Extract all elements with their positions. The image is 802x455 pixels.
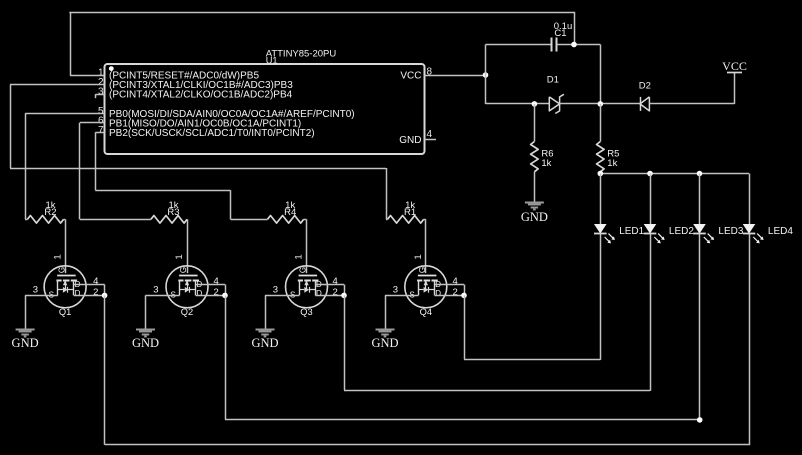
node junction Q3 drain [341, 293, 347, 299]
wire pin7 vertical down [95, 132, 97, 190]
LED LED4 triangle [743, 224, 756, 234]
Q4 channel dashes [417, 280, 422, 282]
resistor R2 [27, 216, 63, 224]
wire R5 to LED bus [600, 172, 602, 174]
svg-text:R4: R4 [284, 207, 296, 218]
wire bus to LED3 [699, 174, 701, 225]
wire pin2 net drop to R1 [386, 168, 388, 219]
svg-text:C1: C1 [554, 28, 566, 39]
diode D2 triangle [640, 97, 649, 111]
svg-text:1: 1 [413, 254, 424, 259]
Q4 body diode [419, 289, 424, 291]
Q1 channel dashes [56, 280, 61, 282]
node junction pin8/VCC branch [483, 72, 489, 78]
svg-text:LED4: LED4 [768, 226, 793, 237]
wire Q1 source to ground [25, 295, 27, 329]
wire VCC symbol drop [734, 72, 736, 104]
wire Q4 source to ground [385, 295, 387, 329]
LED4 cathode bar [743, 233, 756, 235]
Q3 substrate arrow [306, 282, 308, 290]
LED LED3 triangle [693, 224, 706, 234]
transistor Q3 body circle [286, 266, 328, 308]
svg-text:3: 3 [33, 285, 38, 296]
node junction bus/LED1 [598, 171, 604, 177]
wire Q3 drain down [344, 295, 346, 390]
Q3 gate plate [299, 275, 318, 277]
svg-text:VCC: VCC [400, 71, 421, 82]
wire U1 pin3 stub with jog (no-connect) [96, 94, 105, 96]
svg-text:VCC: VCC [722, 59, 747, 73]
svg-text:GND: GND [132, 336, 159, 350]
Q4 source internal lead [418, 280, 420, 295]
svg-text:LED2: LED2 [669, 226, 694, 237]
wire Q1 drain pin4 [74, 284, 105, 286]
resistor R5 [597, 142, 605, 172]
svg-text:1: 1 [174, 254, 185, 259]
wire Q2 to LED3 [225, 419, 700, 421]
wire U1 pin8 to VCC node [425, 75, 486, 77]
node junction Q1 drain [102, 293, 108, 299]
svg-text:1k: 1k [607, 158, 617, 169]
svg-text:3: 3 [98, 87, 104, 98]
diode D2 cathode bar [640, 97, 642, 111]
Q4 gate plate [418, 275, 437, 277]
node junction LED3 corner [697, 417, 703, 423]
wire U1 pin7 left [95, 132, 104, 134]
wire bus to LED2 [650, 174, 652, 225]
wire LED4 cathode down [749, 234, 751, 445]
svg-text:G: G [418, 267, 427, 273]
svg-text:R1: R1 [404, 207, 416, 218]
Q2 source internal lead [179, 280, 181, 295]
wire pin7 to R4 [231, 219, 268, 221]
Q2 substrate arrow [187, 282, 189, 290]
resistor R6 [531, 142, 539, 172]
svg-text:4: 4 [93, 276, 98, 287]
diode D1 (schottky) triangle [549, 97, 559, 111]
wire R4 to gate [304, 219, 307, 221]
wire R1 left joint [386, 219, 388, 221]
wire reset node down to D1 cathode rail [600, 45, 602, 104]
wire R2 left joint [25, 219, 27, 221]
wire Q1 drain down [104, 295, 106, 444]
transistor Q1 body circle [44, 266, 86, 308]
wire Q3 drain pin4 [315, 284, 344, 286]
svg-text:D1: D1 [547, 74, 559, 85]
wire Q4 source pin3 [385, 295, 419, 297]
svg-text:PB2(SCK/USCK/SCL/ADC1/T0/INT0/: PB2(SCK/USCK/SCL/ADC1/T0/INT0/PCINT2) [109, 128, 315, 139]
wire Q1 source pin3 [25, 295, 58, 297]
Q1 source internal lead [57, 280, 59, 295]
LED3 cathode bar [693, 233, 706, 235]
LED LED1 triangle [594, 224, 607, 234]
svg-text:1k: 1k [541, 158, 551, 169]
LED LED2 triangle [644, 224, 657, 234]
svg-text:U1: U1 [266, 56, 278, 66]
svg-text:D2: D2 [639, 80, 651, 91]
resistor R1 [388, 216, 424, 224]
wire R5R6 node to R6 [534, 104, 536, 142]
wire D1 cathode to node [560, 103, 640, 105]
svg-text:Q4: Q4 [420, 307, 432, 317]
ground below Q4 [376, 329, 395, 331]
Q3 source internal lead [299, 280, 301, 295]
svg-text:D: D [435, 289, 441, 298]
U1 pin-1 indicator dot [109, 66, 114, 71]
wire Q2 drain pin4 [196, 284, 225, 286]
wire R1 to gate [424, 219, 426, 221]
svg-text:4: 4 [214, 276, 219, 287]
ground below Q2 [136, 329, 155, 331]
wire VCC branch vertical [485, 45, 487, 104]
ground below R6 [525, 202, 544, 204]
node junction bus/LED3 [697, 171, 703, 177]
wire VCC branch to C1 left [486, 44, 552, 46]
Q2 channel dashes [178, 280, 183, 282]
wire Q2 drain pin2 [196, 295, 225, 297]
svg-text:4: 4 [333, 276, 338, 287]
ground below Q3 [256, 329, 275, 331]
D1 cathode bar with hooks [555, 94, 564, 113]
Q2 body diode [180, 289, 185, 291]
node junction reset/C1 [571, 42, 577, 48]
node junction Q2 drain [222, 293, 228, 299]
resistor R4 [268, 216, 304, 224]
wire Q4 drain down [464, 295, 466, 359]
Q1 body diode [58, 289, 63, 291]
svg-text:G: G [299, 267, 308, 273]
svg-text:7: 7 [98, 125, 104, 136]
LED1 cathode bar [594, 233, 607, 235]
wire R6 to ground [534, 172, 536, 203]
LED3 emission arrows [704, 237, 710, 243]
node junction D1/D2/R5 [598, 101, 604, 107]
transistor Q4 body circle [405, 266, 447, 308]
Q3 drain internal lead [315, 280, 317, 295]
svg-text:R2: R2 [44, 207, 56, 218]
U1 pin 4 stub wire (unconnected) [425, 139, 437, 141]
svg-text:1: 1 [294, 254, 305, 259]
wire U1 pin2 left [10, 84, 105, 86]
wire R3 to gate [186, 219, 188, 221]
wire Q3 source pin3 [265, 295, 299, 297]
svg-text:GND: GND [521, 210, 548, 224]
wire pin2 net horizontal to R1 [10, 168, 386, 170]
power symbol VCC bar [727, 72, 742, 74]
Q4 substrate arrow [425, 282, 427, 290]
wire Q2 drain down [225, 295, 227, 419]
svg-text:LED3: LED3 [718, 226, 743, 237]
wire pin6 horizontal to R3 [80, 219, 151, 221]
wire Q2 source pin3 [146, 295, 180, 297]
LED4 emission arrows [753, 237, 759, 243]
wire R2 to gate [64, 219, 66, 221]
wire bus to LED1 [600, 174, 602, 225]
svg-text:4: 4 [453, 276, 458, 287]
ground below Q1 [16, 329, 35, 331]
svg-text:4: 4 [427, 129, 433, 140]
wire U1 pin5 left [25, 113, 104, 115]
svg-text:GND: GND [251, 336, 278, 350]
Q1 gate plate [57, 275, 75, 277]
svg-text:Q3: Q3 [300, 307, 312, 317]
svg-text:Q1: Q1 [59, 307, 71, 317]
wire pin2 vertical down [10, 85, 12, 168]
wire LED anode bus [600, 173, 749, 175]
wire node to R5 [600, 104, 602, 142]
LED2 cathode bar [644, 233, 657, 235]
wire Q3 drain pin2 [315, 295, 344, 297]
wire Q4 drain pin4 [435, 284, 464, 286]
svg-text:G: G [179, 267, 188, 273]
svg-text:3: 3 [393, 285, 398, 296]
wire Q3 to LED2 [344, 390, 650, 392]
svg-text:GND: GND [371, 336, 398, 350]
wire D2 anode to VCC symbol [649, 103, 734, 105]
svg-text:LED1: LED1 [619, 226, 644, 237]
svg-text:GND: GND [399, 135, 421, 146]
Q2 drain internal lead [195, 280, 197, 295]
IC U1 ATTINY85-20PU body [105, 64, 425, 154]
Q1 drain internal lead [73, 280, 75, 295]
svg-text:1: 1 [52, 254, 63, 259]
node junction Q4 drain [461, 293, 467, 299]
svg-text:G: G [57, 267, 66, 273]
wire pin5 vertical down to R2 [25, 113, 27, 219]
wire Q4 to LED1 [464, 359, 600, 361]
svg-text:D: D [75, 289, 81, 298]
wire Q4 drain pin2 [435, 295, 464, 297]
wire Q2 source to ground [145, 295, 147, 329]
wire U1 pin6 left [80, 122, 105, 124]
svg-text:Q2: Q2 [181, 307, 193, 317]
Q2 gate plate [179, 275, 198, 277]
Q1 substrate arrow [65, 282, 67, 290]
wire reset bus drop to C1 node [574, 12, 576, 45]
node junction bus/LED2 [647, 171, 653, 177]
Q4 drain internal lead [434, 280, 436, 295]
wire Q1 drain pin2 [74, 295, 105, 297]
LED1 emission arrows [605, 237, 611, 243]
svg-text:R3: R3 [167, 207, 179, 218]
wire VCC branch to D1 anode [486, 103, 550, 105]
capacitor C1 plates [551, 38, 553, 52]
wire C1 right plate to reset node [557, 44, 601, 46]
wire LED2 cathode down [650, 234, 652, 391]
svg-text:3: 3 [273, 285, 278, 296]
transistor Q2 body circle [166, 266, 208, 308]
wire pin7 drop to R4 row [230, 190, 232, 219]
wire pin6 vertical down to R3 row [79, 123, 81, 220]
wire bus to LED4 [749, 174, 751, 225]
svg-text:(PCINT4/XTAL2/CLKO/OC1B/ADC2)P: (PCINT4/XTAL2/CLKO/OC1B/ADC2)PB4 [109, 90, 293, 101]
svg-text:D: D [197, 289, 203, 298]
svg-text:D: D [316, 289, 322, 298]
wire LED3 cathode down [699, 234, 701, 421]
svg-text:GND: GND [12, 336, 39, 350]
svg-text:3: 3 [153, 285, 158, 296]
Q3 channel dashes [298, 280, 303, 282]
wire Q3 source to ground [265, 295, 267, 329]
wire pin7 horizontal [95, 190, 230, 192]
wire top reset bus horizontal [69, 12, 574, 14]
Q3 body diode [299, 289, 304, 291]
resistor R3 [151, 216, 187, 224]
wire U1 pin1 to top reset bus [70, 75, 105, 77]
wire Q1 to LED4 [105, 444, 749, 446]
node junction R6 top [532, 101, 538, 107]
LED2 emission arrows [654, 237, 660, 243]
wire LED1 cathode down [600, 234, 602, 360]
